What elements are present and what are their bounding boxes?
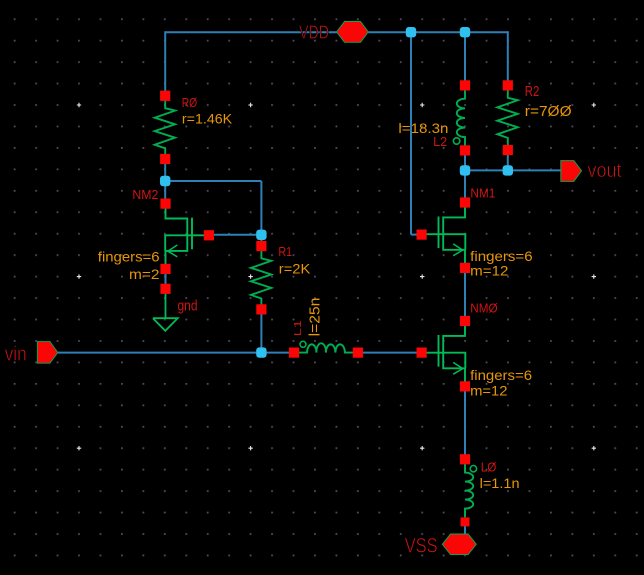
svg-text:vin: vin (5, 344, 27, 366)
resistor R2 body (497, 90, 517, 145)
port VDD symbol (337, 22, 369, 43)
wire output node to vout (465, 169, 561, 171)
svg-text:NM1: NM1 (470, 186, 495, 200)
resistor R0 body (155, 101, 175, 155)
pin NM0 gate (417, 348, 427, 358)
svg-text:NMØ: NMØ (470, 301, 498, 315)
inductor L2 body (457, 90, 465, 146)
wire drop to NM1 gate (410, 32, 412, 234)
transistor NM1 body (422, 207, 466, 263)
junction VDD-L2 (460, 27, 470, 37)
svg-text:RØ: RØ (182, 96, 198, 110)
pin L1 right (353, 348, 363, 358)
svg-text:r=1.46K: r=1.46K (182, 111, 233, 127)
wire drop to R2 (507, 31, 509, 85)
svg-text:m=12: m=12 (470, 263, 508, 279)
wire NM1 source to NM0 drain (464, 268, 466, 321)
pin L1 left (289, 348, 299, 358)
pin gnd (160, 284, 170, 294)
pin R1 bottom (256, 304, 266, 314)
pin NM1 source (460, 263, 470, 273)
pin R0 top (160, 91, 170, 101)
wire to NM1 gate pin (411, 234, 422, 236)
pin NM2 gate (204, 230, 214, 240)
port vin symbol (37, 342, 58, 364)
svg-text:L2: L2 (433, 135, 447, 149)
wire NM2 source to gnd (165, 269, 167, 289)
svg-text:r=2K: r=2K (279, 260, 311, 276)
wire NM2 gate to R1 node (209, 234, 262, 236)
svg-text:m=2: m=2 (129, 266, 160, 282)
pin NM0 source (460, 381, 470, 391)
transistor NM2 body (165, 208, 209, 264)
wire R0 to NM2 drain (164, 159, 166, 204)
svg-text:R1: R1 (278, 244, 292, 259)
wire drop to L2 (464, 32, 466, 85)
svg-text:R2: R2 (525, 84, 540, 100)
svg-text:gnd: gnd (178, 298, 198, 315)
pin L2 top (460, 80, 470, 90)
pin L2 bottom (460, 145, 470, 155)
svg-text:NM2: NM2 (132, 187, 158, 202)
pin NM1 drain (460, 197, 470, 207)
svg-text:l=25n: l=25n (307, 298, 323, 337)
svg-text:l=1.1n: l=1.1n (480, 475, 520, 491)
wire down to R1 (260, 181, 262, 246)
junction NM2 gate node (256, 230, 266, 240)
svg-text:LØ: LØ (481, 460, 497, 475)
transistor NM0 body (422, 326, 466, 382)
wire NM0 source to L0 (464, 386, 466, 459)
svg-text:L1: L1 (292, 320, 304, 336)
pin L0 top (460, 454, 470, 464)
wire R1 to vin line (260, 309, 262, 352)
wire L1 to NM0 gate (358, 352, 422, 354)
pin NM1 gate (417, 230, 427, 240)
junction output-L2 (460, 165, 470, 175)
wire vin line (58, 352, 294, 354)
svg-text:vout: vout (588, 160, 622, 182)
junction vin-R1 (256, 347, 266, 357)
pin R1 top (256, 241, 266, 251)
wire L0 to VSS (464, 522, 466, 535)
pin NM2 source (160, 264, 170, 274)
wire VDD rail drop to R0 (164, 31, 166, 96)
pin R2 top (503, 80, 513, 90)
wire VDD rail right (368, 31, 508, 33)
inductor L1 body (299, 343, 354, 352)
junction output-R2 (503, 165, 513, 175)
pin R0 bottom (160, 154, 170, 164)
svg-text:fingers=6: fingers=6 (98, 250, 160, 265)
wire L2 to NM1 drain (464, 150, 466, 202)
port VSS symbol (442, 534, 476, 555)
pin R2 bottom (503, 145, 513, 155)
resistor R1 body (251, 251, 271, 305)
pin NM2 drain (160, 199, 170, 209)
svg-text:VDD: VDD (299, 21, 329, 42)
junction node A (160, 176, 170, 186)
svg-text:m=12: m=12 (470, 382, 508, 398)
port vout symbol (561, 161, 582, 182)
pin NM0 drain (460, 316, 470, 326)
junction VDD-NM1gate (406, 27, 416, 37)
wire R2 to output node (507, 150, 509, 170)
svg-text:r=7ØØ: r=7ØØ (525, 104, 572, 120)
svg-text:fingers=6: fingers=6 (470, 368, 532, 383)
pin L0 bottom (461, 517, 470, 526)
wire VDD rail left (165, 31, 337, 33)
wire node A horizontal (165, 180, 261, 182)
inductor L0 body (465, 464, 473, 518)
svg-text:l=18.3n: l=18.3n (398, 120, 448, 136)
svg-text:VSS: VSS (405, 535, 438, 558)
ground gnd symbol (153, 294, 178, 331)
